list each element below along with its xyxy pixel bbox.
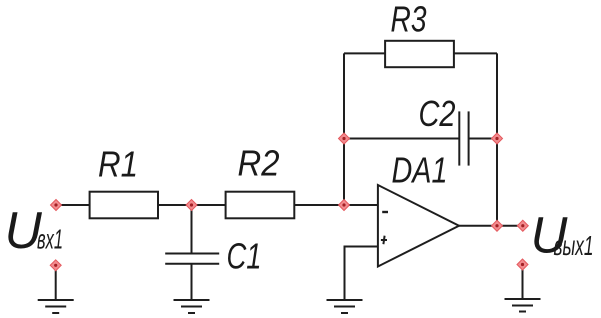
- resistor R2: [226, 192, 295, 219]
- svg-text:C1: C1: [227, 236, 262, 277]
- wire input to R1: [56, 204, 90, 206]
- svg-text:вых1: вых1: [554, 230, 594, 261]
- wire C1 bottom to ground: [191, 264, 193, 300]
- node C2 right junction: [492, 133, 503, 144]
- ground under C1: [174, 300, 210, 313]
- node input terminal: [51, 200, 62, 211]
- svg-text:DA1: DA1: [392, 150, 448, 191]
- wire top to R3: [344, 52, 385, 54]
- wire feedback vertical left (node B up to top wire): [343, 53, 345, 205]
- node A (R1/R2/C1 junction): [186, 200, 197, 211]
- ground at output: [505, 299, 541, 312]
- wire input ground stem: [55, 265, 57, 300]
- node output terminal: [517, 220, 528, 231]
- node C2 left junction: [339, 133, 350, 144]
- svg-text:C2: C2: [419, 93, 456, 134]
- ground at op-amp non-inverting input: [327, 300, 363, 313]
- op-amp non-inverting input marker: [381, 236, 387, 245]
- wire C1 top (node A down to C1): [191, 205, 193, 254]
- wire output ground stem: [522, 265, 524, 300]
- op-amp inverting input marker: [382, 211, 388, 213]
- wire C2 right: [469, 138, 497, 140]
- wire R1 to node A: [158, 204, 192, 206]
- svg-text:вх1: вх1: [37, 224, 63, 255]
- wire feedback vertical right: [496, 53, 498, 225]
- op-amp U1 DA1 triangle: [378, 185, 459, 267]
- wire C2 left: [344, 138, 459, 140]
- node input ground terminal: [50, 260, 61, 271]
- node output feedback junction: [492, 220, 503, 231]
- resistor R1: [90, 192, 158, 219]
- label U input: [5, 201, 64, 259]
- wire R3 to right vertical: [454, 52, 497, 54]
- wire non-inverting input: [345, 247, 378, 301]
- wire R2 to node B: [294, 204, 344, 206]
- capacitor C2: [459, 111, 468, 165]
- resistor R3: [385, 41, 454, 67]
- node output ground terminal: [517, 259, 528, 270]
- wire node A to R2: [192, 204, 226, 206]
- wire node B to op-amp inverting input: [344, 204, 378, 206]
- node B (R2/feedback/inverting input junction): [339, 200, 350, 211]
- svg-text:R2: R2: [238, 143, 280, 184]
- svg-text:R1: R1: [98, 144, 138, 185]
- ground at input: [38, 300, 74, 313]
- svg-text:R3: R3: [391, 0, 427, 40]
- label U output: [531, 207, 594, 264]
- capacitor C1: [165, 254, 219, 264]
- wire op-amp output: [459, 225, 523, 227]
